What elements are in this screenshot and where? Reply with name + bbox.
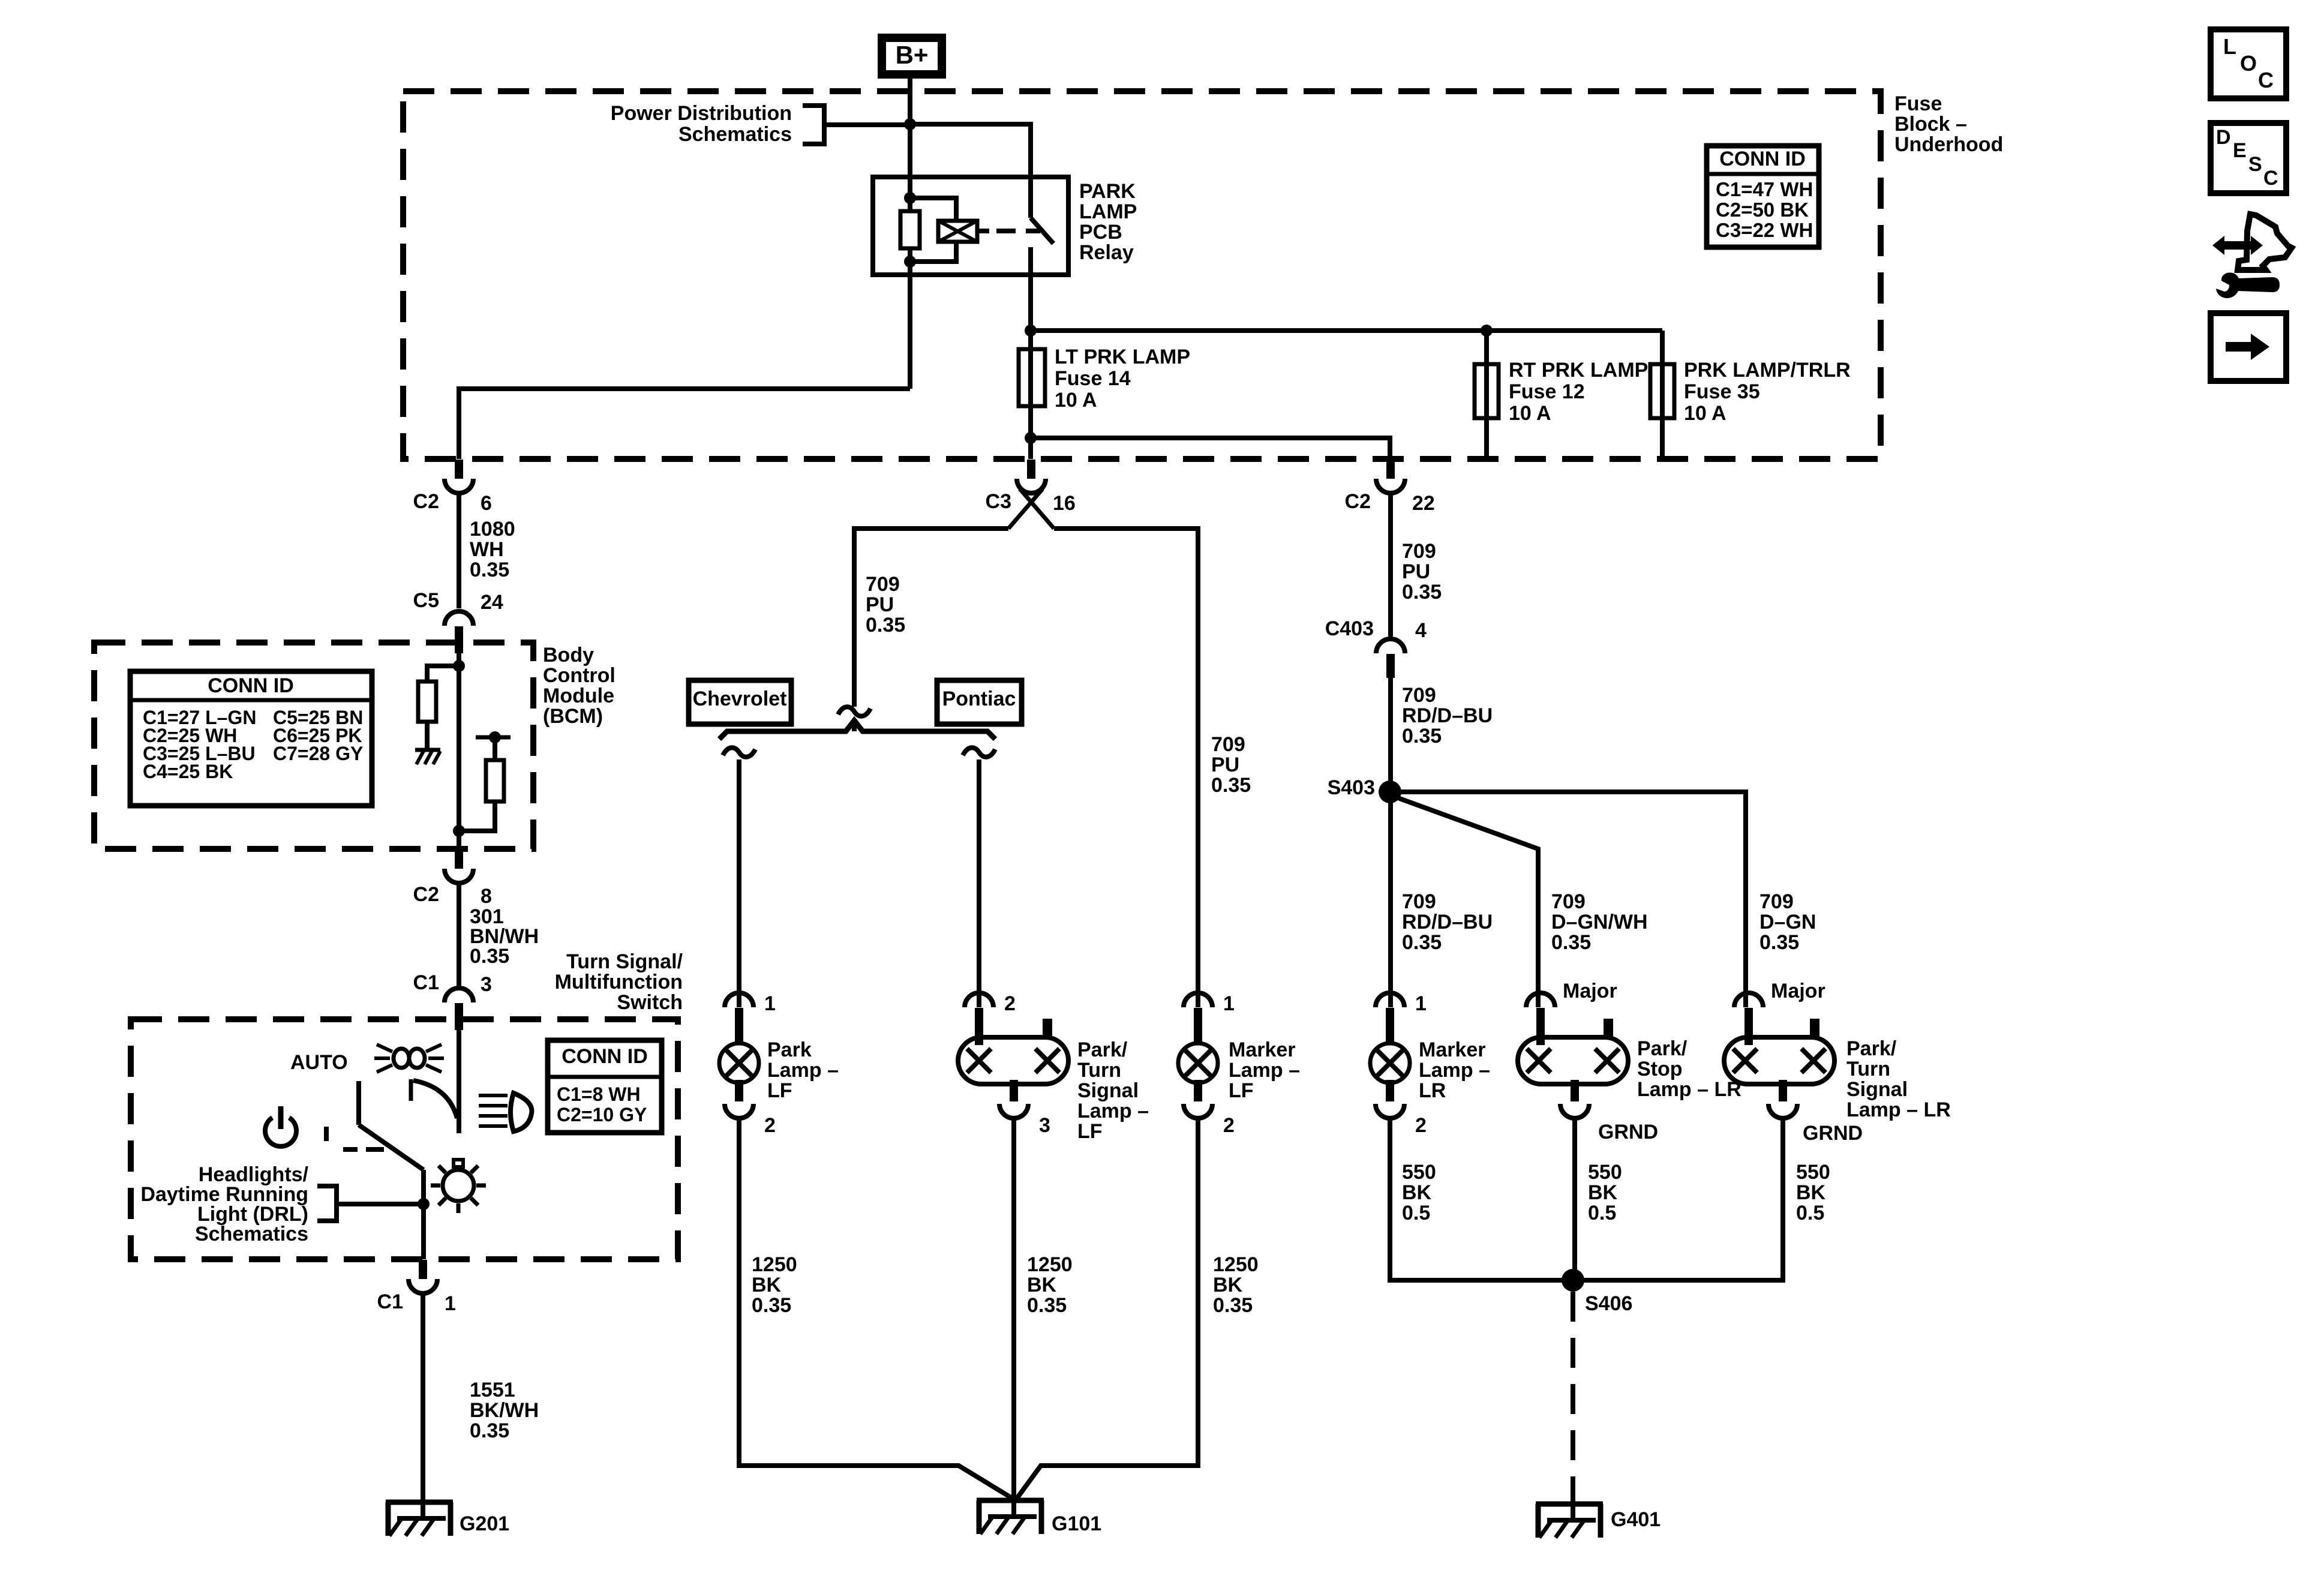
svg-text:C2: C2 xyxy=(413,883,439,906)
svg-text:1: 1 xyxy=(1415,992,1427,1015)
relay coil feed wire xyxy=(908,177,912,211)
label Pontiac xyxy=(937,680,1022,724)
svg-text:10 A: 10 A xyxy=(1509,402,1551,425)
svg-text:709: 709 xyxy=(1211,733,1245,756)
wire to Marker LF branch xyxy=(1054,529,1198,1007)
svg-text:8: 8 xyxy=(481,885,492,908)
svg-text:2: 2 xyxy=(1004,992,1016,1015)
svg-text:PCB: PCB xyxy=(1079,221,1122,244)
svg-text:BK: BK xyxy=(1588,1181,1618,1204)
svg-text:Turn: Turn xyxy=(1846,1058,1890,1080)
svg-text:Lamp –: Lamp – xyxy=(1077,1100,1149,1122)
svg-text:CONN ID: CONN ID xyxy=(208,674,294,697)
switch fixed contact wire xyxy=(457,1023,461,1133)
node below fuse 14 xyxy=(1025,432,1037,444)
connector C403 pin 4 xyxy=(1376,639,1405,653)
svg-text:1250: 1250 xyxy=(1213,1253,1259,1276)
svg-text:10 A: 10 A xyxy=(1055,389,1097,412)
connector C5 pin 24 (BCM top) xyxy=(445,611,473,626)
svg-text:GRND: GRND xyxy=(1598,1121,1658,1143)
splice X below C3 xyxy=(1020,489,1054,529)
svg-text:LR: LR xyxy=(1419,1079,1446,1102)
svg-text:0.35: 0.35 xyxy=(1211,774,1251,797)
BCM internal ground xyxy=(415,748,440,752)
wire bracket to junction xyxy=(824,122,910,127)
svg-text:24: 24 xyxy=(481,591,503,614)
svg-text:0.35: 0.35 xyxy=(1213,1294,1253,1317)
svg-text:0.35: 0.35 xyxy=(1027,1294,1067,1317)
dashed ground wire to G401 xyxy=(1571,1292,1575,1504)
svg-text:1: 1 xyxy=(1223,992,1235,1015)
connector C1 pin 3 (switch top) xyxy=(445,988,473,1002)
svg-text:C403: C403 xyxy=(1325,617,1374,640)
lamp Marker Lamp - LF xyxy=(1184,993,1212,1007)
svg-text:GRND: GRND xyxy=(1803,1122,1863,1145)
icon wrench xyxy=(2216,272,2280,298)
svg-text:709: 709 xyxy=(866,573,900,596)
svg-text:Power Distribution: Power Distribution xyxy=(611,102,792,125)
bracket DRL xyxy=(317,1186,337,1221)
svg-text:BK: BK xyxy=(1027,1274,1057,1296)
BCM internal main wire xyxy=(457,647,461,849)
svg-text:BK: BK xyxy=(1213,1274,1243,1296)
wire fuse bus xyxy=(1031,328,1662,333)
wire resistor to internal ground xyxy=(425,722,430,750)
svg-text:2: 2 xyxy=(764,1114,776,1137)
node coil top xyxy=(904,192,916,204)
node BCM branch 1 xyxy=(453,660,465,672)
wire 1250 BK (park LF) xyxy=(739,1118,1014,1499)
wire coil bottom out of relay box xyxy=(908,248,912,389)
CONN ID table switch xyxy=(548,1040,662,1133)
svg-text:1250: 1250 xyxy=(752,1253,797,1276)
svg-text:Lamp – LR: Lamp – LR xyxy=(1637,1078,1742,1101)
svg-text:Turn: Turn xyxy=(1077,1059,1121,1082)
svg-text:PU: PU xyxy=(866,593,894,616)
OFF position dashes xyxy=(324,1127,329,1141)
label Chevrolet xyxy=(689,680,791,724)
svg-text:1: 1 xyxy=(764,992,776,1015)
node bus / RT fuse xyxy=(1481,325,1493,337)
node bus / LT fuse xyxy=(1025,325,1037,337)
svg-text:C5: C5 xyxy=(413,589,439,612)
svg-text:RT PRK LAMP: RT PRK LAMP xyxy=(1509,359,1648,382)
svg-text:O: O xyxy=(2240,51,2257,76)
svg-text:LT PRK LAMP: LT PRK LAMP xyxy=(1055,346,1190,368)
svg-text:C3=22 WH: C3=22 WH xyxy=(1716,219,1813,241)
BCM dashed box xyxy=(94,643,533,849)
battery feed B+ xyxy=(882,38,942,74)
wire 1250 BK (marker LF) xyxy=(1016,1118,1198,1499)
relay coil resistor xyxy=(900,211,920,248)
svg-text:0.35: 0.35 xyxy=(1551,931,1591,954)
svg-text:CONN ID: CONN ID xyxy=(1719,148,1806,170)
relay switch lower contact xyxy=(1028,247,1033,331)
svg-text:(BCM): (BCM) xyxy=(543,705,603,728)
svg-text:PRK LAMP/TRLR: PRK LAMP/TRLR xyxy=(1684,359,1851,382)
svg-text:2: 2 xyxy=(1223,1114,1235,1137)
svg-text:Marker: Marker xyxy=(1229,1038,1296,1061)
svg-text:AUTO: AUTO xyxy=(290,1051,348,1074)
svg-text:0.5: 0.5 xyxy=(1588,1202,1616,1224)
ground G201 xyxy=(421,1502,425,1518)
CONN ID table fuse block xyxy=(1707,146,1819,247)
svg-text:C: C xyxy=(2258,68,2274,92)
svg-text:Major: Major xyxy=(1771,980,1825,1002)
wire 1250 BK (park/turn LF) xyxy=(1011,1118,1016,1500)
svg-text:BK: BK xyxy=(1796,1181,1826,1204)
svg-text:0.35: 0.35 xyxy=(1402,725,1442,748)
svg-text:Pontiac: Pontiac xyxy=(942,688,1016,710)
svg-text:1: 1 xyxy=(445,1292,456,1315)
svg-text:G101: G101 xyxy=(1052,1512,1101,1535)
svg-text:D–GN/WH: D–GN/WH xyxy=(1551,911,1648,933)
node DRL junction xyxy=(418,1198,430,1210)
bracket to Power Distribution Schematics xyxy=(803,106,824,144)
svg-text:RD/D–BU: RD/D–BU xyxy=(1402,704,1493,727)
svg-text:G401: G401 xyxy=(1611,1508,1661,1531)
svg-text:0.35: 0.35 xyxy=(1402,581,1442,604)
svg-text:LF: LF xyxy=(1229,1079,1254,1102)
svg-text:1250: 1250 xyxy=(1027,1253,1073,1276)
splice S406 xyxy=(1562,1269,1584,1292)
svg-text:0.35: 0.35 xyxy=(470,559,509,581)
svg-text:Fuse 35: Fuse 35 xyxy=(1684,380,1760,403)
lamp Park/Turn Signal Lamp - LF xyxy=(965,993,993,1007)
connector C1 pin 1 (switch bottom) xyxy=(419,1260,427,1279)
svg-text:Turn Signal/: Turn Signal/ xyxy=(566,950,683,973)
wire TRLR fuse leg xyxy=(1660,331,1665,460)
svg-text:C1: C1 xyxy=(413,971,439,994)
svg-text:D–GN: D–GN xyxy=(1759,911,1816,933)
svg-text:0.5: 0.5 xyxy=(1796,1202,1824,1224)
svg-text:2: 2 xyxy=(1415,1114,1427,1137)
svg-text:D: D xyxy=(2216,126,2231,149)
relay switch blade xyxy=(1031,218,1053,244)
wire resistor 2 to internal rail xyxy=(493,737,497,760)
svg-text:C3: C3 xyxy=(986,490,1011,513)
wire to resistor 2 xyxy=(459,801,495,831)
svg-text:Module: Module xyxy=(543,685,614,707)
svg-text:0.35: 0.35 xyxy=(752,1294,791,1317)
svg-text:C2=10 GY: C2=10 GY xyxy=(557,1104,647,1125)
icon LOC box xyxy=(2211,29,2286,98)
svg-text:4: 4 xyxy=(1415,619,1427,642)
svg-text:PU: PU xyxy=(1211,754,1239,776)
wire 301 BN/WH xyxy=(457,882,461,987)
svg-text:Lamp – LR: Lamp – LR xyxy=(1846,1098,1951,1121)
svg-text:C4=25 BK: C4=25 BK xyxy=(143,761,233,782)
svg-text:Park/: Park/ xyxy=(1077,1038,1128,1061)
svg-text:709: 709 xyxy=(1402,540,1436,563)
svg-text:RD/D–BU: RD/D–BU xyxy=(1402,911,1493,933)
svg-text:3: 3 xyxy=(481,973,492,996)
wire Chevrolet branch to Park Lamp LF xyxy=(737,760,741,1007)
wire to pull-up resistor xyxy=(427,666,459,682)
lamp Park Lamp - LF xyxy=(725,993,753,1007)
svg-text:1551: 1551 xyxy=(470,1379,515,1401)
svg-text:550: 550 xyxy=(1588,1161,1622,1184)
svg-text:C7=28 GY: C7=28 GY xyxy=(273,743,363,764)
svg-text:Lamp –: Lamp – xyxy=(1419,1059,1490,1082)
svg-text:0.35: 0.35 xyxy=(1402,931,1442,954)
relay box PARK LAMP PCB Relay xyxy=(873,177,1068,275)
svg-text:WH: WH xyxy=(470,538,504,561)
wire lever to C1-1 xyxy=(421,1170,426,1259)
svg-text:C: C xyxy=(2263,167,2278,190)
option split brace xyxy=(719,721,995,739)
wire fuse14 to C2-22 drop xyxy=(1031,438,1390,459)
svg-text:C2: C2 xyxy=(413,490,439,513)
svg-text:Major: Major xyxy=(1563,980,1617,1002)
svg-text:Fuse 12: Fuse 12 xyxy=(1509,380,1585,403)
BCM internal rail tick xyxy=(476,736,511,740)
svg-text:BK: BK xyxy=(752,1274,782,1296)
connector C2 pin 8 (BCM bottom) xyxy=(455,849,463,869)
svg-text:Lamp –: Lamp – xyxy=(1229,1059,1300,1082)
svg-text:0.5: 0.5 xyxy=(1402,1202,1430,1224)
ground G401 xyxy=(1571,1504,1575,1520)
svg-text:Body: Body xyxy=(543,644,594,667)
node: B+ / power distribution junction xyxy=(904,118,916,130)
svg-text:S406: S406 xyxy=(1585,1292,1632,1315)
break Pontiac branch xyxy=(963,748,995,757)
svg-text:Underhood: Underhood xyxy=(1894,133,2003,156)
svg-text:Park: Park xyxy=(767,1038,812,1061)
svg-text:22: 22 xyxy=(1412,492,1435,515)
break Chevrolet branch xyxy=(723,748,755,757)
svg-text:C1: C1 xyxy=(377,1290,403,1313)
fuse block underhood dashed box xyxy=(403,91,1881,459)
switch rotary arc xyxy=(409,1079,413,1101)
switch lever xyxy=(356,1081,361,1125)
wire 709 PU to C403 xyxy=(1388,493,1393,637)
icon parking lamp bulb xyxy=(443,1170,474,1201)
wire coil parallel branch bottom xyxy=(910,242,956,262)
svg-text:6: 6 xyxy=(481,492,492,515)
svg-text:Lamp –: Lamp – xyxy=(767,1059,839,1082)
CONN ID table BCM xyxy=(130,671,372,806)
splice S403 xyxy=(1379,781,1401,803)
lamp Marker Lamp - LR xyxy=(1376,993,1404,1007)
svg-text:Signal: Signal xyxy=(1846,1078,1908,1101)
wire 550 BK (park/turn LR) xyxy=(1573,1118,1783,1280)
svg-text:Fuse: Fuse xyxy=(1894,92,1942,115)
wire RT fuse leg xyxy=(1484,331,1489,460)
svg-text:E: E xyxy=(2233,139,2247,162)
wire B+ down to relay xyxy=(908,79,912,177)
svg-text:709: 709 xyxy=(1551,890,1586,913)
svg-text:550: 550 xyxy=(1796,1161,1830,1184)
connector C2 pin 22 (fuse block) xyxy=(1386,460,1395,479)
svg-text:G201: G201 xyxy=(460,1512,509,1535)
svg-text:Schematics: Schematics xyxy=(195,1223,308,1245)
wire 550 BK (marker LR) xyxy=(1390,1118,1573,1280)
svg-text:Multifunction: Multifunction xyxy=(555,971,683,993)
wire from B+ junction to relay switch xyxy=(910,124,1031,177)
wire coil parallel branch top xyxy=(910,198,956,221)
BCM resistor 1 xyxy=(418,682,436,722)
wire 709 RD/D-BU to S403 xyxy=(1388,678,1393,1007)
svg-text:S: S xyxy=(2248,153,2262,176)
svg-text:Block –: Block – xyxy=(1894,113,1967,136)
wire break xyxy=(838,707,870,716)
relay actuation dashed link xyxy=(977,229,989,233)
fuse LT PRK LAMP Fuse 14 xyxy=(1019,349,1045,406)
svg-text:Park/: Park/ xyxy=(1846,1037,1897,1060)
icon headlight beam xyxy=(479,1094,508,1097)
icon power (off) xyxy=(265,1118,296,1146)
svg-text:709: 709 xyxy=(1402,684,1436,707)
svg-text:C2: C2 xyxy=(1345,490,1371,513)
svg-text:0.35: 0.35 xyxy=(866,614,905,637)
svg-text:10 A: 10 A xyxy=(1684,402,1727,425)
relay solenoid X-box xyxy=(938,221,977,242)
icon arrow box xyxy=(2211,313,2286,381)
relay switch fixed contact xyxy=(1028,177,1033,218)
svg-text:C2=50 BK: C2=50 BK xyxy=(1716,199,1809,221)
svg-text:709: 709 xyxy=(1402,890,1436,913)
svg-text:16: 16 xyxy=(1053,492,1076,515)
turn signal switch dashed box xyxy=(131,1019,678,1259)
fuse RT PRK LAMP Fuse 12 xyxy=(1475,364,1499,418)
connector C2 pin 6 (fuse block) xyxy=(455,460,463,479)
svg-text:C1=47 WH: C1=47 WH xyxy=(1716,178,1813,200)
svg-text:Signal: Signal xyxy=(1077,1079,1139,1102)
svg-text:LF: LF xyxy=(767,1079,792,1102)
svg-text:PU: PU xyxy=(1402,560,1430,583)
svg-text:Stop: Stop xyxy=(1637,1058,1683,1080)
svg-text:Switch: Switch xyxy=(617,991,683,1014)
icon service/route xyxy=(2212,236,2263,255)
svg-text:LF: LF xyxy=(1077,1120,1103,1143)
icon auto headlamp xyxy=(394,1049,409,1068)
svg-text:B+: B+ xyxy=(896,41,929,69)
svg-text:Park/: Park/ xyxy=(1637,1037,1688,1060)
svg-text:3: 3 xyxy=(1039,1114,1050,1137)
svg-text:0.35: 0.35 xyxy=(470,945,509,968)
svg-text:LAMP: LAMP xyxy=(1079,200,1137,223)
fuse PRK LAMP/TRLR Fuse 35 xyxy=(1650,364,1674,418)
connector C3 pin 16 (fuse block) xyxy=(1027,460,1035,479)
svg-text:550: 550 xyxy=(1402,1161,1436,1184)
svg-text:0.35: 0.35 xyxy=(470,1419,509,1442)
wire 1080 WH xyxy=(457,493,461,608)
svg-text:Control: Control xyxy=(543,664,615,687)
wire to Chevrolet branch xyxy=(854,529,1008,707)
svg-text:Schematics: Schematics xyxy=(678,123,792,146)
svg-text:CONN ID: CONN ID xyxy=(562,1045,648,1068)
node coil bottom xyxy=(904,256,916,268)
svg-text:709: 709 xyxy=(1759,890,1794,913)
wire S403 to Park/Stop LR xyxy=(1393,796,1538,1007)
svg-text:BK: BK xyxy=(1402,1181,1432,1204)
svg-text:BK/WH: BK/WH xyxy=(470,1399,539,1422)
node BCM branch 2 xyxy=(453,825,465,837)
wire LT fuse leg xyxy=(1028,331,1033,459)
svg-text:Relay: Relay xyxy=(1079,241,1134,264)
wire 550 BK (park/stop) xyxy=(1572,1118,1577,1280)
svg-text:PARK: PARK xyxy=(1079,180,1136,203)
svg-text:L: L xyxy=(2223,34,2236,59)
svg-text:0.35: 0.35 xyxy=(1759,931,1799,954)
BCM resistor 2 xyxy=(486,760,504,801)
svg-text:S403: S403 xyxy=(1328,776,1375,799)
ground G101 xyxy=(1011,1500,1016,1517)
wire S403 to Park/Turn LR xyxy=(1390,792,1746,1007)
icon DESC box xyxy=(2211,123,2286,193)
wire relay coil return xyxy=(459,389,910,459)
svg-text:C1=8 WH: C1=8 WH xyxy=(557,1083,641,1105)
svg-text:Marker: Marker xyxy=(1419,1038,1486,1061)
svg-text:Chevrolet: Chevrolet xyxy=(693,688,787,710)
wire Pontiac branch to Park/Turn LF xyxy=(977,760,981,1007)
svg-text:Fuse 14: Fuse 14 xyxy=(1055,367,1131,390)
wire 1551 BK/WH xyxy=(421,1294,425,1502)
svg-text:1080: 1080 xyxy=(470,518,515,541)
